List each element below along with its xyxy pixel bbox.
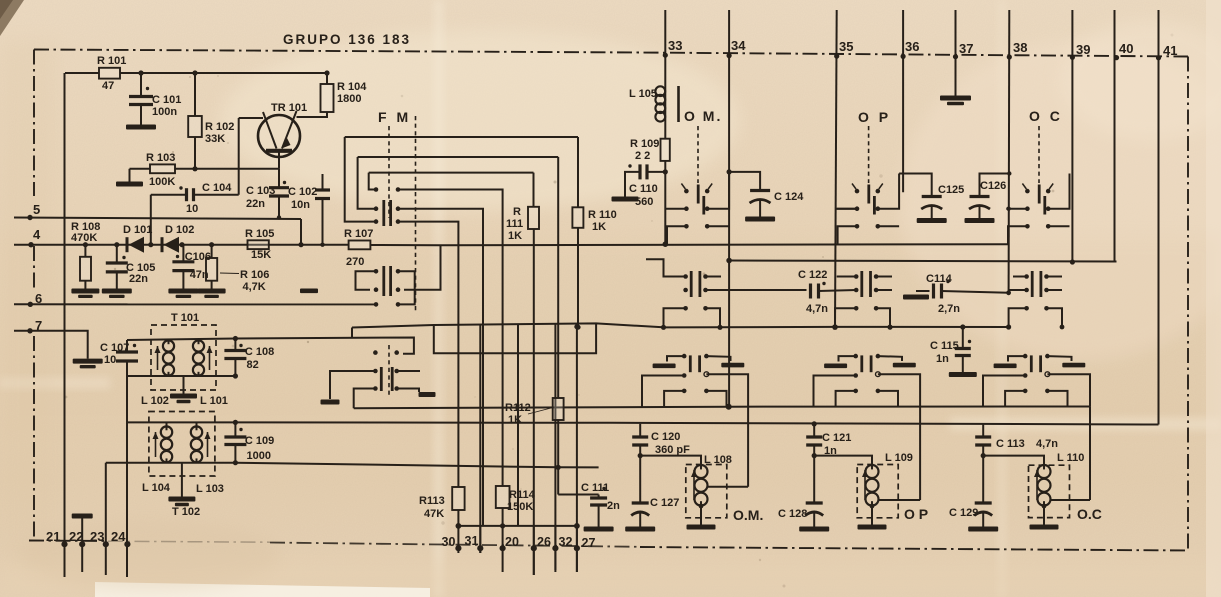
svg-text:470K: 470K [71,232,97,244]
svg-text:5: 5 [33,202,40,217]
svg-text:C106: C106 [185,251,211,263]
svg-text:22: 22 [69,529,83,544]
svg-text:F M: F M [378,109,411,125]
svg-text:R 107: R 107 [344,228,373,240]
svg-text:L 105: L 105 [629,88,657,100]
svg-text:GRUPO 136 183: GRUPO 136 183 [283,32,411,47]
svg-text:R112: R112 [505,402,531,414]
svg-text:270: 270 [346,256,364,268]
svg-text:T 102: T 102 [172,506,200,518]
svg-text:15K: 15K [251,249,271,261]
svg-text:41: 41 [1163,43,1177,58]
svg-text:C114: C114 [926,273,953,285]
svg-text:22n: 22n [129,273,148,285]
svg-text:L 104: L 104 [142,482,171,494]
svg-text:47K: 47K [424,508,444,520]
svg-text:R 102: R 102 [205,121,234,133]
svg-text:TR 101: TR 101 [271,102,307,114]
svg-text:C 111: C 111 [581,482,609,494]
svg-text:C 129: C 129 [949,507,978,519]
svg-text:47n: 47n [190,269,209,281]
svg-text:L 109: L 109 [885,452,913,464]
svg-text:C 122: C 122 [798,269,827,281]
svg-text:L 103: L 103 [196,483,224,495]
svg-text:1000: 1000 [247,450,271,462]
svg-text:L 110: L 110 [1057,452,1084,464]
svg-text:R114: R114 [509,489,536,501]
svg-text:1n: 1n [936,353,949,365]
svg-text:36: 36 [905,39,919,54]
svg-text:O P: O P [858,109,891,125]
svg-text:R 103: R 103 [146,152,175,164]
svg-text:20: 20 [505,535,519,549]
svg-text:10: 10 [104,354,116,366]
svg-text:39: 39 [1076,42,1090,57]
svg-text:R 110: R 110 [588,209,617,221]
svg-text:22n: 22n [246,198,265,210]
svg-text:D 101: D 101 [123,224,152,236]
svg-text:C 104: C 104 [202,182,232,194]
svg-text:O M.: O M. [684,108,722,124]
svg-text:C 109: C 109 [245,435,274,447]
svg-text:34: 34 [731,38,746,53]
svg-text:C 102: C 102 [288,186,317,198]
svg-text:C 101: C 101 [152,94,181,106]
svg-text:6: 6 [35,291,42,306]
svg-text:L 108: L 108 [704,454,732,466]
svg-text:R: R [513,206,521,218]
svg-text:1K: 1K [508,230,522,242]
svg-text:40: 40 [1119,41,1133,56]
svg-text:4,7n: 4,7n [806,303,828,315]
svg-text:C 110: C 110 [629,183,658,195]
svg-text:1K: 1K [592,221,606,233]
svg-text:21: 21 [46,529,60,544]
svg-text:R113: R113 [419,495,445,507]
svg-text:38: 38 [1013,40,1027,55]
svg-text:33: 33 [668,38,682,53]
svg-text:111: 111 [506,218,523,230]
svg-text:C 124: C 124 [774,191,804,203]
svg-text:7: 7 [35,318,42,333]
svg-text:O.M.: O.M. [733,507,763,523]
svg-text:27: 27 [582,536,596,550]
svg-text:4,7n: 4,7n [1036,438,1058,450]
svg-text:R 101: R 101 [97,55,126,67]
svg-text:O P: O P [904,506,928,522]
svg-text:1K: 1K [508,414,522,426]
svg-text:150K: 150K [507,501,533,513]
svg-text:R 106: R 106 [240,269,269,281]
svg-text:4: 4 [33,227,41,242]
svg-text:R 104: R 104 [337,81,367,93]
svg-text:4,7K: 4,7K [243,281,266,293]
svg-text:360 pF: 360 pF [655,444,690,456]
svg-text:37: 37 [959,41,973,56]
svg-text:C 103: C 103 [246,185,275,197]
svg-text:C 128: C 128 [778,508,807,520]
svg-text:10n: 10n [291,199,310,211]
svg-text:C 120: C 120 [651,431,680,443]
svg-text:2,7n: 2,7n [938,303,960,315]
svg-text:C 108: C 108 [245,346,274,358]
svg-text:T 101: T 101 [171,312,199,324]
svg-text:100K: 100K [149,176,175,188]
svg-text:L 101: L 101 [200,395,228,407]
svg-text:C125: C125 [938,184,964,196]
svg-text:82: 82 [247,359,259,371]
svg-text:L 102: L 102 [141,395,169,407]
svg-text:10: 10 [186,203,198,215]
svg-text:C 121: C 121 [822,432,851,444]
svg-text:C 107: C 107 [100,342,129,354]
svg-text:32: 32 [559,535,573,549]
svg-text:O C: O C [1029,108,1063,124]
svg-text:1n: 1n [824,445,837,457]
svg-text:33K: 33K [205,133,225,145]
svg-text:C126: C126 [980,180,1006,192]
svg-text:23: 23 [90,529,104,544]
svg-text:R 109: R 109 [630,138,659,150]
svg-text:2n: 2n [607,500,620,512]
svg-text:30: 30 [442,535,456,549]
svg-text:2 2: 2 2 [635,150,650,162]
svg-text:C 113: C 113 [996,438,1025,450]
svg-text:24: 24 [111,529,126,544]
svg-text:31: 31 [465,534,479,548]
svg-text:26: 26 [537,535,551,549]
svg-text:R 105: R 105 [245,228,274,240]
svg-text:35: 35 [839,39,853,54]
svg-text:560: 560 [635,196,653,208]
svg-text:47: 47 [102,80,114,92]
svg-text:O.C: O.C [1077,506,1102,522]
svg-text:C 127: C 127 [650,497,679,509]
svg-text:1800: 1800 [337,93,361,105]
svg-text:D 102: D 102 [165,224,194,236]
svg-text:100n: 100n [152,106,177,118]
svg-text:C 115: C 115 [930,340,959,352]
